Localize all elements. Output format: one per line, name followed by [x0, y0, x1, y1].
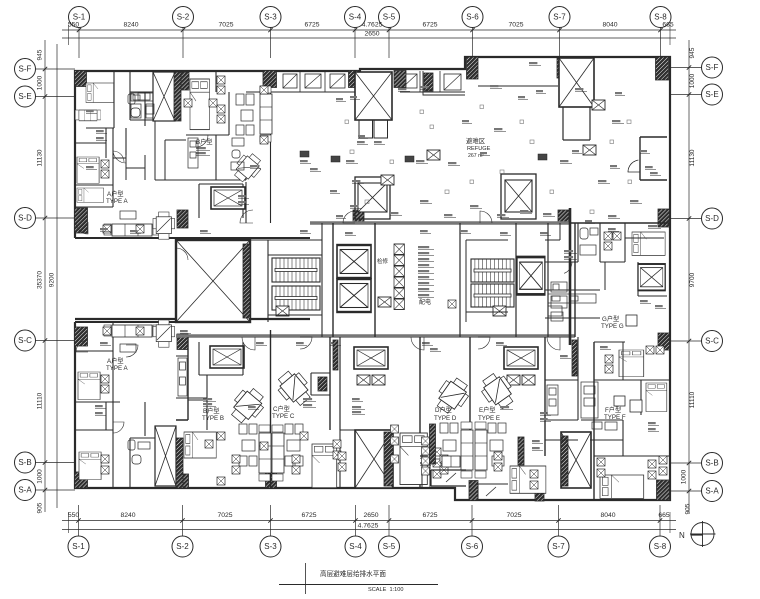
pipe label extra 32	[300, 160, 311, 163]
svg-text:550: 550	[68, 22, 80, 29]
B kitchen counters	[188, 138, 244, 170]
wall G north	[570, 222, 670, 224]
dining table B	[230, 150, 265, 186]
column S-C left	[75, 327, 88, 346]
wall core east	[569, 208, 572, 345]
svg-text:S-A: S-A	[705, 487, 719, 496]
grid stem S-C right	[670, 340, 702, 342]
small shaft box refuge 3	[592, 100, 605, 110]
svg-text:S-D: S-D	[18, 214, 32, 223]
tick S-4 bottom	[353, 518, 357, 522]
pipe label extra 14	[600, 346, 611, 349]
svg-text:TYPE A: TYPE A	[106, 365, 129, 372]
column S-2 mid-lower	[177, 334, 188, 350]
pipe label extra 19	[540, 232, 551, 235]
shaft A/B hatch bar	[174, 72, 181, 121]
wall stair east west side	[459, 223, 461, 337]
tick S-1 bottom	[76, 518, 80, 522]
shaft S4-S5 compartments	[359, 120, 388, 138]
door A2 entry left	[76, 340, 88, 352]
grid stem S-6 top	[472, 28, 474, 59]
svg-text:6725: 6725	[422, 512, 437, 519]
stair west xbox	[276, 306, 289, 316]
grid stem S-2 top	[182, 28, 184, 59]
column S-1/S-F corner	[75, 71, 87, 87]
tick S-8 top	[658, 28, 662, 32]
svg-text:8040: 8040	[602, 22, 617, 29]
closet F d	[597, 469, 605, 477]
pipe label extra 41	[420, 462, 431, 465]
svg-text:11110: 11110	[689, 391, 696, 408]
grid stem S-D right	[670, 218, 702, 220]
pipe label extra 30	[86, 166, 97, 169]
svg-text:4.7625: 4.7625	[362, 22, 383, 29]
tick S-6 top	[470, 28, 474, 32]
grid stem S-7 bottom	[558, 505, 560, 536]
pipe label extra 37	[296, 342, 307, 345]
tick S-F left	[43, 67, 47, 71]
closet box 1	[433, 448, 441, 456]
svg-text:7025: 7025	[508, 22, 523, 29]
svg-text:A户型: A户型	[107, 190, 124, 198]
riser xbox 3	[394, 266, 404, 277]
elevator unit E	[504, 347, 538, 369]
door A entry left	[76, 222, 88, 234]
elevator core 1	[337, 245, 371, 278]
svg-text:S-F: S-F	[706, 63, 719, 72]
grid stem S-B left	[36, 462, 76, 464]
grid bubble S-B left	[15, 452, 36, 473]
pipe label extra 31	[250, 165, 261, 168]
svg-text:S-D: S-D	[705, 214, 719, 223]
svg-text:S-3: S-3	[264, 542, 277, 551]
pipe label C1	[303, 398, 316, 401]
pipe label core 3	[418, 258, 434, 261]
closet bottom 12	[260, 442, 268, 450]
pipe label G4	[648, 225, 661, 228]
column S-3 bottom	[266, 472, 277, 488]
closet G 3	[613, 232, 621, 240]
pipe label core 1	[418, 246, 434, 249]
pipe label refuge 12	[630, 200, 642, 203]
closet F b	[656, 346, 664, 354]
wardrobe A3 x1	[101, 455, 109, 463]
wall A-south upper	[88, 237, 310, 239]
pipe label refuge extra 11	[336, 215, 346, 218]
pipe label extra 36	[248, 406, 259, 409]
pipe label extra 5	[180, 330, 191, 333]
svg-text:1000: 1000	[681, 469, 688, 484]
svg-text:TYPE E: TYPE E	[478, 415, 500, 422]
door D entry	[411, 337, 424, 350]
bed C	[312, 444, 337, 488]
walls balcony E	[478, 484, 508, 500]
shaft S7 bottom with X	[561, 432, 591, 488]
shaft A/B with X	[153, 72, 175, 121]
dimension line right tier1	[688, 40, 690, 514]
grid stem S-4 bottom	[355, 505, 357, 536]
grid bubble S-D right	[702, 208, 723, 229]
pipe label extra 43	[532, 447, 543, 450]
grid stem S-E left	[36, 96, 76, 98]
grid stem S-7 top	[559, 28, 561, 59]
svg-text:1000: 1000	[689, 73, 696, 88]
svg-text:8040: 8040	[600, 512, 615, 519]
pipe label refuge extra 4	[615, 92, 625, 95]
stair east flight lower	[471, 284, 514, 307]
grid stem S-5 top	[388, 28, 390, 59]
grid bubble S-2 bottom	[172, 536, 193, 557]
grid bubble S-8 bottom	[650, 536, 671, 557]
sofa B lower	[259, 425, 271, 481]
bed A lower 1	[78, 372, 100, 400]
hatch bar closet D	[430, 424, 436, 464]
column S-7 corridor	[558, 210, 569, 224]
tick S-D left	[43, 216, 47, 220]
tick S-5 top	[387, 28, 391, 32]
bed B master	[190, 79, 210, 130]
pipe label extra 15	[640, 300, 651, 303]
svg-text:TYPE C: TYPE C	[272, 413, 295, 420]
shaft S7 bottom hatch	[561, 436, 568, 486]
small shaft box refuge 1	[427, 150, 440, 160]
pipe label extra 20	[300, 230, 311, 233]
elevator unit B upper	[211, 187, 245, 209]
pipe label core 4	[418, 264, 434, 267]
dimension line bottom tier1	[62, 520, 676, 522]
column S-4 top	[349, 71, 361, 88]
pipe label extra 12	[496, 342, 507, 345]
pipe label extra 33	[310, 168, 321, 171]
tick S-E left	[43, 94, 47, 98]
pipe label refuge extra 14	[462, 120, 472, 123]
tick S-B right	[687, 461, 691, 465]
pipe label refuge 5	[575, 88, 587, 91]
bed F north	[619, 350, 644, 377]
door A bed1	[113, 150, 126, 163]
tick S-4 top	[353, 28, 357, 32]
svg-text:1000: 1000	[37, 75, 44, 90]
shaft S4 bottom with X	[355, 430, 393, 488]
column S-6 top	[467, 57, 479, 79]
closet bottom 6	[440, 466, 448, 474]
pipe label refuge 15	[520, 210, 532, 213]
bed A maid	[77, 188, 104, 202]
bed B lower	[184, 432, 216, 458]
wall C-D party upper	[339, 337, 341, 430]
wardrobe D s2	[391, 437, 399, 445]
closet bottom 7	[494, 452, 502, 460]
tick S-1 top	[77, 28, 81, 32]
tick S-3 bottom	[268, 518, 272, 522]
north arrow	[679, 521, 716, 547]
shaft A lower hatch bar	[176, 438, 183, 488]
xbox E 2	[522, 375, 535, 385]
dimension line top tier1	[62, 29, 676, 31]
svg-text:C户型: C户型	[273, 405, 290, 413]
grid stem S-8 top	[660, 28, 662, 59]
dining table A	[153, 212, 175, 239]
svg-text:S-3: S-3	[264, 13, 277, 22]
dining table A lower	[153, 320, 175, 347]
pipe label extra 40	[420, 455, 431, 458]
walls kitchen B lower	[176, 356, 207, 398]
pipe label extra 29	[86, 110, 97, 113]
stair east flight upper	[471, 259, 514, 282]
walls unit G extra	[545, 223, 664, 290]
wardrobe A x1	[101, 160, 109, 168]
pipe label extra 10	[352, 398, 363, 401]
armchairs D	[440, 423, 458, 451]
column S-A right corner	[657, 480, 670, 500]
closet bottom 8	[494, 463, 502, 471]
grid stem S-A left	[36, 489, 76, 491]
svg-text:REFUGE: REFUGE	[467, 146, 491, 152]
small shaft box S7	[583, 145, 596, 155]
walls unit G	[545, 223, 667, 318]
grid stem S-6 bottom	[471, 505, 473, 536]
pipe label shaft A	[357, 141, 368, 144]
door F entry	[547, 337, 560, 350]
wardrobe A2 x1	[101, 375, 109, 383]
svg-text:S-4: S-4	[349, 13, 362, 22]
side table A 2	[136, 225, 144, 233]
svg-text:1000: 1000	[37, 469, 44, 484]
sofa C	[272, 425, 284, 481]
svg-text:2650: 2650	[364, 31, 379, 38]
svg-text:S-B: S-B	[705, 459, 718, 468]
pipe label extra 8	[422, 342, 433, 345]
pipe label D1	[352, 406, 365, 409]
wardrobe A2 x2	[101, 385, 109, 393]
pipe label G2	[564, 256, 577, 259]
pipe label extra 35	[95, 412, 106, 415]
door refuge room	[628, 160, 640, 172]
pipe label extra 22	[130, 230, 141, 233]
wardrobe B x4	[217, 115, 225, 123]
grid bubble S-E right	[702, 84, 723, 105]
walls stair east hall	[466, 240, 508, 322]
svg-text:S-5: S-5	[383, 13, 396, 22]
pipe label extra 18	[500, 232, 511, 235]
svg-text:S-5: S-5	[383, 542, 396, 551]
dimension text bottom row	[68, 512, 670, 530]
wardrobe B x2	[217, 86, 225, 94]
pipe label refuge extra 7	[610, 165, 620, 168]
svg-text:D户型: D户型	[435, 406, 452, 414]
pipe label E1	[500, 406, 513, 409]
armchairs B	[236, 94, 254, 135]
svg-text:7025: 7025	[506, 512, 521, 519]
bath A upper fixtures	[128, 93, 153, 118]
grid stem S-F right	[670, 67, 702, 69]
shaft S7 with X	[559, 58, 594, 107]
grid bubble S-5 bottom	[379, 536, 400, 557]
bed E	[510, 466, 546, 493]
sofa D	[461, 422, 473, 478]
tick S-A left	[43, 488, 47, 492]
pipe label extra 17	[345, 232, 356, 235]
bed A master	[86, 83, 114, 103]
stair west flight upper	[272, 258, 320, 282]
dim extension x=670	[669, 25, 671, 45]
dimension text right column	[681, 47, 697, 514]
tick S-5 bottom	[387, 518, 391, 522]
riser xbox 5	[394, 288, 404, 299]
svg-text:S-F: S-F	[19, 65, 32, 74]
stair east xbox	[493, 306, 506, 316]
wall A-north lower	[75, 318, 310, 320]
door B entry	[240, 210, 253, 223]
elevator core 2	[337, 279, 371, 312]
pipe label G3	[605, 233, 618, 236]
pipe label core 6	[418, 276, 434, 279]
svg-text:避难区: 避难区	[466, 136, 486, 145]
side table A3	[103, 327, 111, 335]
closet D x0	[422, 437, 430, 445]
bath A lower fixtures	[128, 440, 150, 464]
svg-text:9200: 9200	[49, 272, 56, 287]
grid bubble S-C right	[702, 331, 723, 352]
pipe label extra 44	[648, 422, 659, 425]
walls unit F	[545, 337, 670, 456]
elevator tower west (refuge side)	[355, 177, 390, 219]
grid bubble S-6 top	[462, 7, 483, 28]
svg-text:S-A: S-A	[18, 486, 32, 495]
wardrobe D s1	[391, 425, 399, 433]
door refuge 2	[480, 211, 492, 223]
door C entry	[300, 337, 312, 349]
grid bubble S-4 bottom	[345, 536, 366, 557]
svg-text:6725: 6725	[422, 22, 437, 29]
column S-3 top	[263, 71, 277, 88]
door G entry	[560, 262, 572, 273]
walls unit A lower rooms	[76, 322, 155, 488]
closet bottom 15	[530, 470, 538, 478]
pipe label B2	[196, 152, 210, 155]
tick S-6 bottom	[470, 518, 474, 522]
closet bottom 4	[292, 466, 300, 474]
side table B 4	[260, 136, 268, 144]
elevator unit G service	[638, 264, 665, 290]
small squares refuge floor drains	[345, 120, 349, 124]
pipe label refuge 19	[497, 214, 509, 217]
pipe label refuge 2	[420, 86, 432, 89]
column S-8/S-F corner	[656, 57, 669, 80]
tick S-E right	[687, 92, 691, 96]
walls unit F extra	[545, 342, 641, 456]
wardrobe F x1	[659, 456, 667, 464]
svg-text:S-8: S-8	[654, 542, 667, 551]
tick S-2 top	[181, 28, 185, 32]
svg-text:S-B: S-B	[18, 458, 31, 467]
pipe label refuge 8	[416, 160, 428, 163]
pipe label refuge extra 1	[336, 98, 346, 101]
closet bottom 14	[338, 463, 346, 471]
closet bottom 3	[292, 455, 300, 463]
light well big X shaft	[176, 240, 250, 322]
closet C 1	[333, 440, 341, 448]
pipe label extra 3	[238, 195, 249, 198]
svg-text:TYPE D: TYPE D	[434, 415, 457, 422]
side table B 3	[260, 86, 268, 94]
wardrobe F x2	[659, 467, 667, 475]
closet bottom 10	[648, 471, 656, 479]
wall elevator west	[332, 223, 334, 337]
grid stem S-5 bottom	[388, 505, 390, 536]
pipe label refuge extra 3	[536, 90, 546, 93]
grid stem S-1 bottom	[78, 505, 80, 536]
pipe label refuge extra 12	[585, 220, 595, 223]
closet box 2	[433, 459, 441, 467]
corridor lower wall	[176, 334, 575, 337]
svg-text:S-6: S-6	[466, 13, 479, 22]
svg-text:9700: 9700	[689, 272, 696, 287]
walls unit A upper rooms	[76, 71, 155, 207]
cab F 2	[605, 365, 613, 373]
grid bubble S-2 top	[173, 7, 194, 28]
grid bubble S-C left	[15, 330, 36, 351]
side table A4	[136, 327, 144, 335]
pipe label extra 42	[532, 440, 543, 443]
pipe label refuge 17	[390, 212, 402, 215]
party walls bottom	[176, 223, 594, 500]
closet C 2	[333, 451, 341, 459]
dimension text top row	[68, 22, 674, 38]
pipe label extra 28	[650, 172, 661, 175]
pipe label refuge 22	[346, 160, 358, 163]
grid bubble S-1 top	[69, 7, 90, 28]
pipe label extra 26	[608, 228, 619, 231]
grid bubble S-8 top	[650, 7, 671, 28]
grid stem S-A right	[670, 490, 702, 492]
grid stem S-D left	[36, 217, 76, 219]
riser xbox 4	[394, 277, 404, 288]
svg-text:6725: 6725	[304, 22, 319, 29]
armchairs E	[488, 423, 506, 466]
grid stem S-F left	[36, 68, 76, 70]
tick S-2 bottom	[180, 518, 184, 522]
svg-text:S-7: S-7	[552, 542, 565, 551]
wardrobe A x2	[101, 170, 109, 178]
svg-text:S-4: S-4	[349, 542, 362, 551]
cab F 1	[605, 355, 613, 363]
walls G hall	[545, 238, 625, 290]
grid bubble S-5 top	[379, 7, 400, 28]
grid bubble S-6 bottom	[462, 536, 483, 557]
svg-text:检修: 检修	[377, 257, 389, 265]
tick S-C right	[687, 339, 691, 343]
pipe label refuge 3	[490, 85, 502, 88]
xbox D 1	[357, 375, 370, 385]
grid stem S-B right	[670, 462, 702, 464]
pipe label extra 27	[645, 166, 656, 169]
dimension line left tier2	[56, 44, 58, 508]
pipe label refuge 21	[608, 215, 620, 218]
pipe label core 8	[418, 288, 434, 291]
closet D x2	[422, 457, 430, 465]
svg-text:7025: 7025	[217, 512, 232, 519]
kitchen F	[581, 382, 598, 418]
E kitchen counters	[547, 385, 558, 415]
table G	[626, 315, 637, 326]
pipe label core 9	[418, 294, 434, 297]
bath G fixtures	[580, 228, 598, 255]
wall elevator east	[374, 223, 376, 337]
tick S-7 top	[557, 28, 561, 32]
closet F a	[646, 346, 654, 354]
pipe label B4	[203, 403, 216, 406]
